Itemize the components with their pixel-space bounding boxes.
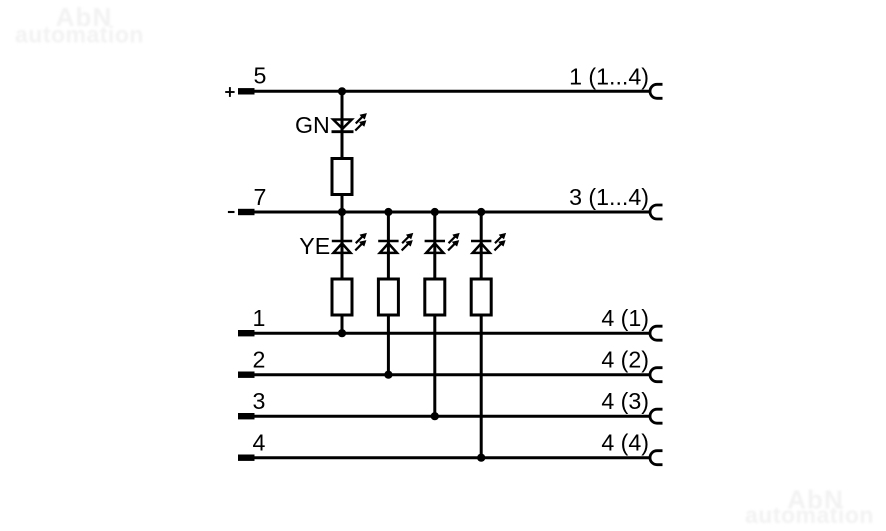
junction node pin7/GN-YE1 xyxy=(338,208,346,216)
svg-text:automation: automation xyxy=(745,502,874,528)
junction node pin7/YE3 xyxy=(431,208,439,216)
wire pin5 (+) horizontal xyxy=(254,90,650,93)
svg-text:1 (1...4): 1 (1...4) xyxy=(569,63,649,89)
svg-text:7: 7 xyxy=(254,184,267,210)
wire branch YE1 resistor to line1 xyxy=(341,315,344,333)
connector socket line2 right xyxy=(650,368,663,382)
LED YE3 cathode bar xyxy=(425,240,445,243)
watermark AbN automation bottom-right xyxy=(745,485,874,529)
connector socket line1 right xyxy=(650,326,663,340)
LED YE3 flash arrows xyxy=(448,233,460,244)
wire branch YE4 resistor to line4 xyxy=(480,315,483,458)
wire branch YE3 vertical pin7 to resistor xyxy=(433,212,436,281)
connector socket line4 right xyxy=(650,451,663,465)
wire branch YE1 vertical pin7 to resistor xyxy=(341,212,344,281)
svg-text:5: 5 xyxy=(254,62,267,88)
LED YE4 cathode bar xyxy=(471,240,491,243)
LED YE3 diode triangle xyxy=(426,243,443,253)
LED YE1 flash arrows xyxy=(355,233,367,244)
terminal pin 7 xyxy=(238,209,255,215)
LED YE1 cathode bar xyxy=(332,240,352,243)
svg-text:2: 2 xyxy=(253,347,266,373)
wire branch YE2 resistor to line2 xyxy=(387,315,390,375)
resistor R-YE3 xyxy=(425,279,445,315)
svg-text:4: 4 xyxy=(253,430,266,456)
resistor R-YE4 xyxy=(471,279,491,315)
minus sign at pin 7 xyxy=(228,211,235,213)
wire branch GN resistor to pin7 xyxy=(341,195,344,213)
wire branch GN vertical xyxy=(341,91,344,158)
terminal line 4 xyxy=(238,455,255,461)
junction node line2/YE2 xyxy=(384,371,392,379)
junction node pin7/YE4 xyxy=(477,208,485,216)
LED YE4 diode triangle xyxy=(473,243,490,253)
watermark AbN automation top-left xyxy=(15,2,144,48)
LED GN cathode bar xyxy=(332,130,354,133)
svg-text:3 (1...4): 3 (1...4) xyxy=(569,184,649,210)
junction node line3/YE3 xyxy=(431,412,439,420)
LED GN diode triangle xyxy=(333,120,352,129)
wire branch YE4 vertical pin7 to resistor xyxy=(480,212,483,281)
wire branch YE2 vertical pin7 to resistor xyxy=(387,212,390,281)
terminal line 1 xyxy=(238,330,255,336)
wire pin7 (-) horizontal xyxy=(254,211,650,214)
junction node line4/YE4 xyxy=(477,454,485,462)
LED YE2 diode triangle xyxy=(380,243,397,253)
terminal line 3 xyxy=(238,413,255,419)
terminal line 2 xyxy=(238,372,255,378)
svg-text:3: 3 xyxy=(253,388,266,414)
svg-text:YE: YE xyxy=(299,233,330,259)
svg-text:4 (2): 4 (2) xyxy=(601,347,649,373)
junction node pin5/GN xyxy=(338,87,346,95)
wire output line 4 horizontal xyxy=(254,456,650,459)
LED YE2 cathode bar xyxy=(378,240,398,243)
connector socket line3 right xyxy=(650,409,663,423)
svg-text:GN: GN xyxy=(295,112,330,138)
junction node pin7/YE2 xyxy=(384,208,392,216)
wire output line 1 horizontal xyxy=(254,332,650,335)
svg-text:4 (1): 4 (1) xyxy=(601,305,649,331)
wire output line 2 horizontal xyxy=(254,373,650,376)
resistor R-GN xyxy=(332,159,352,195)
connector socket pin7 right xyxy=(650,205,663,219)
LED GN flash arrows xyxy=(355,113,367,124)
terminal pin 5 xyxy=(238,88,255,94)
svg-text:automation: automation xyxy=(15,22,144,48)
wire branch YE3 resistor to line3 xyxy=(433,315,436,416)
resistor R-YE2 xyxy=(378,279,398,315)
wire output line 3 horizontal xyxy=(254,415,650,418)
LED YE4 flash arrows xyxy=(494,233,506,244)
svg-text:4 (3): 4 (3) xyxy=(601,388,649,414)
resistor R-YE1 xyxy=(332,279,352,315)
svg-text:4 (4): 4 (4) xyxy=(601,430,649,456)
junction node line1/YE1 xyxy=(338,329,346,337)
svg-text:1: 1 xyxy=(253,305,266,331)
plus sign at pin 5 xyxy=(225,87,234,97)
LED YE2 flash arrows xyxy=(401,233,413,244)
connector socket pin5 right xyxy=(650,84,663,98)
LED YE1 diode triangle xyxy=(333,243,350,253)
